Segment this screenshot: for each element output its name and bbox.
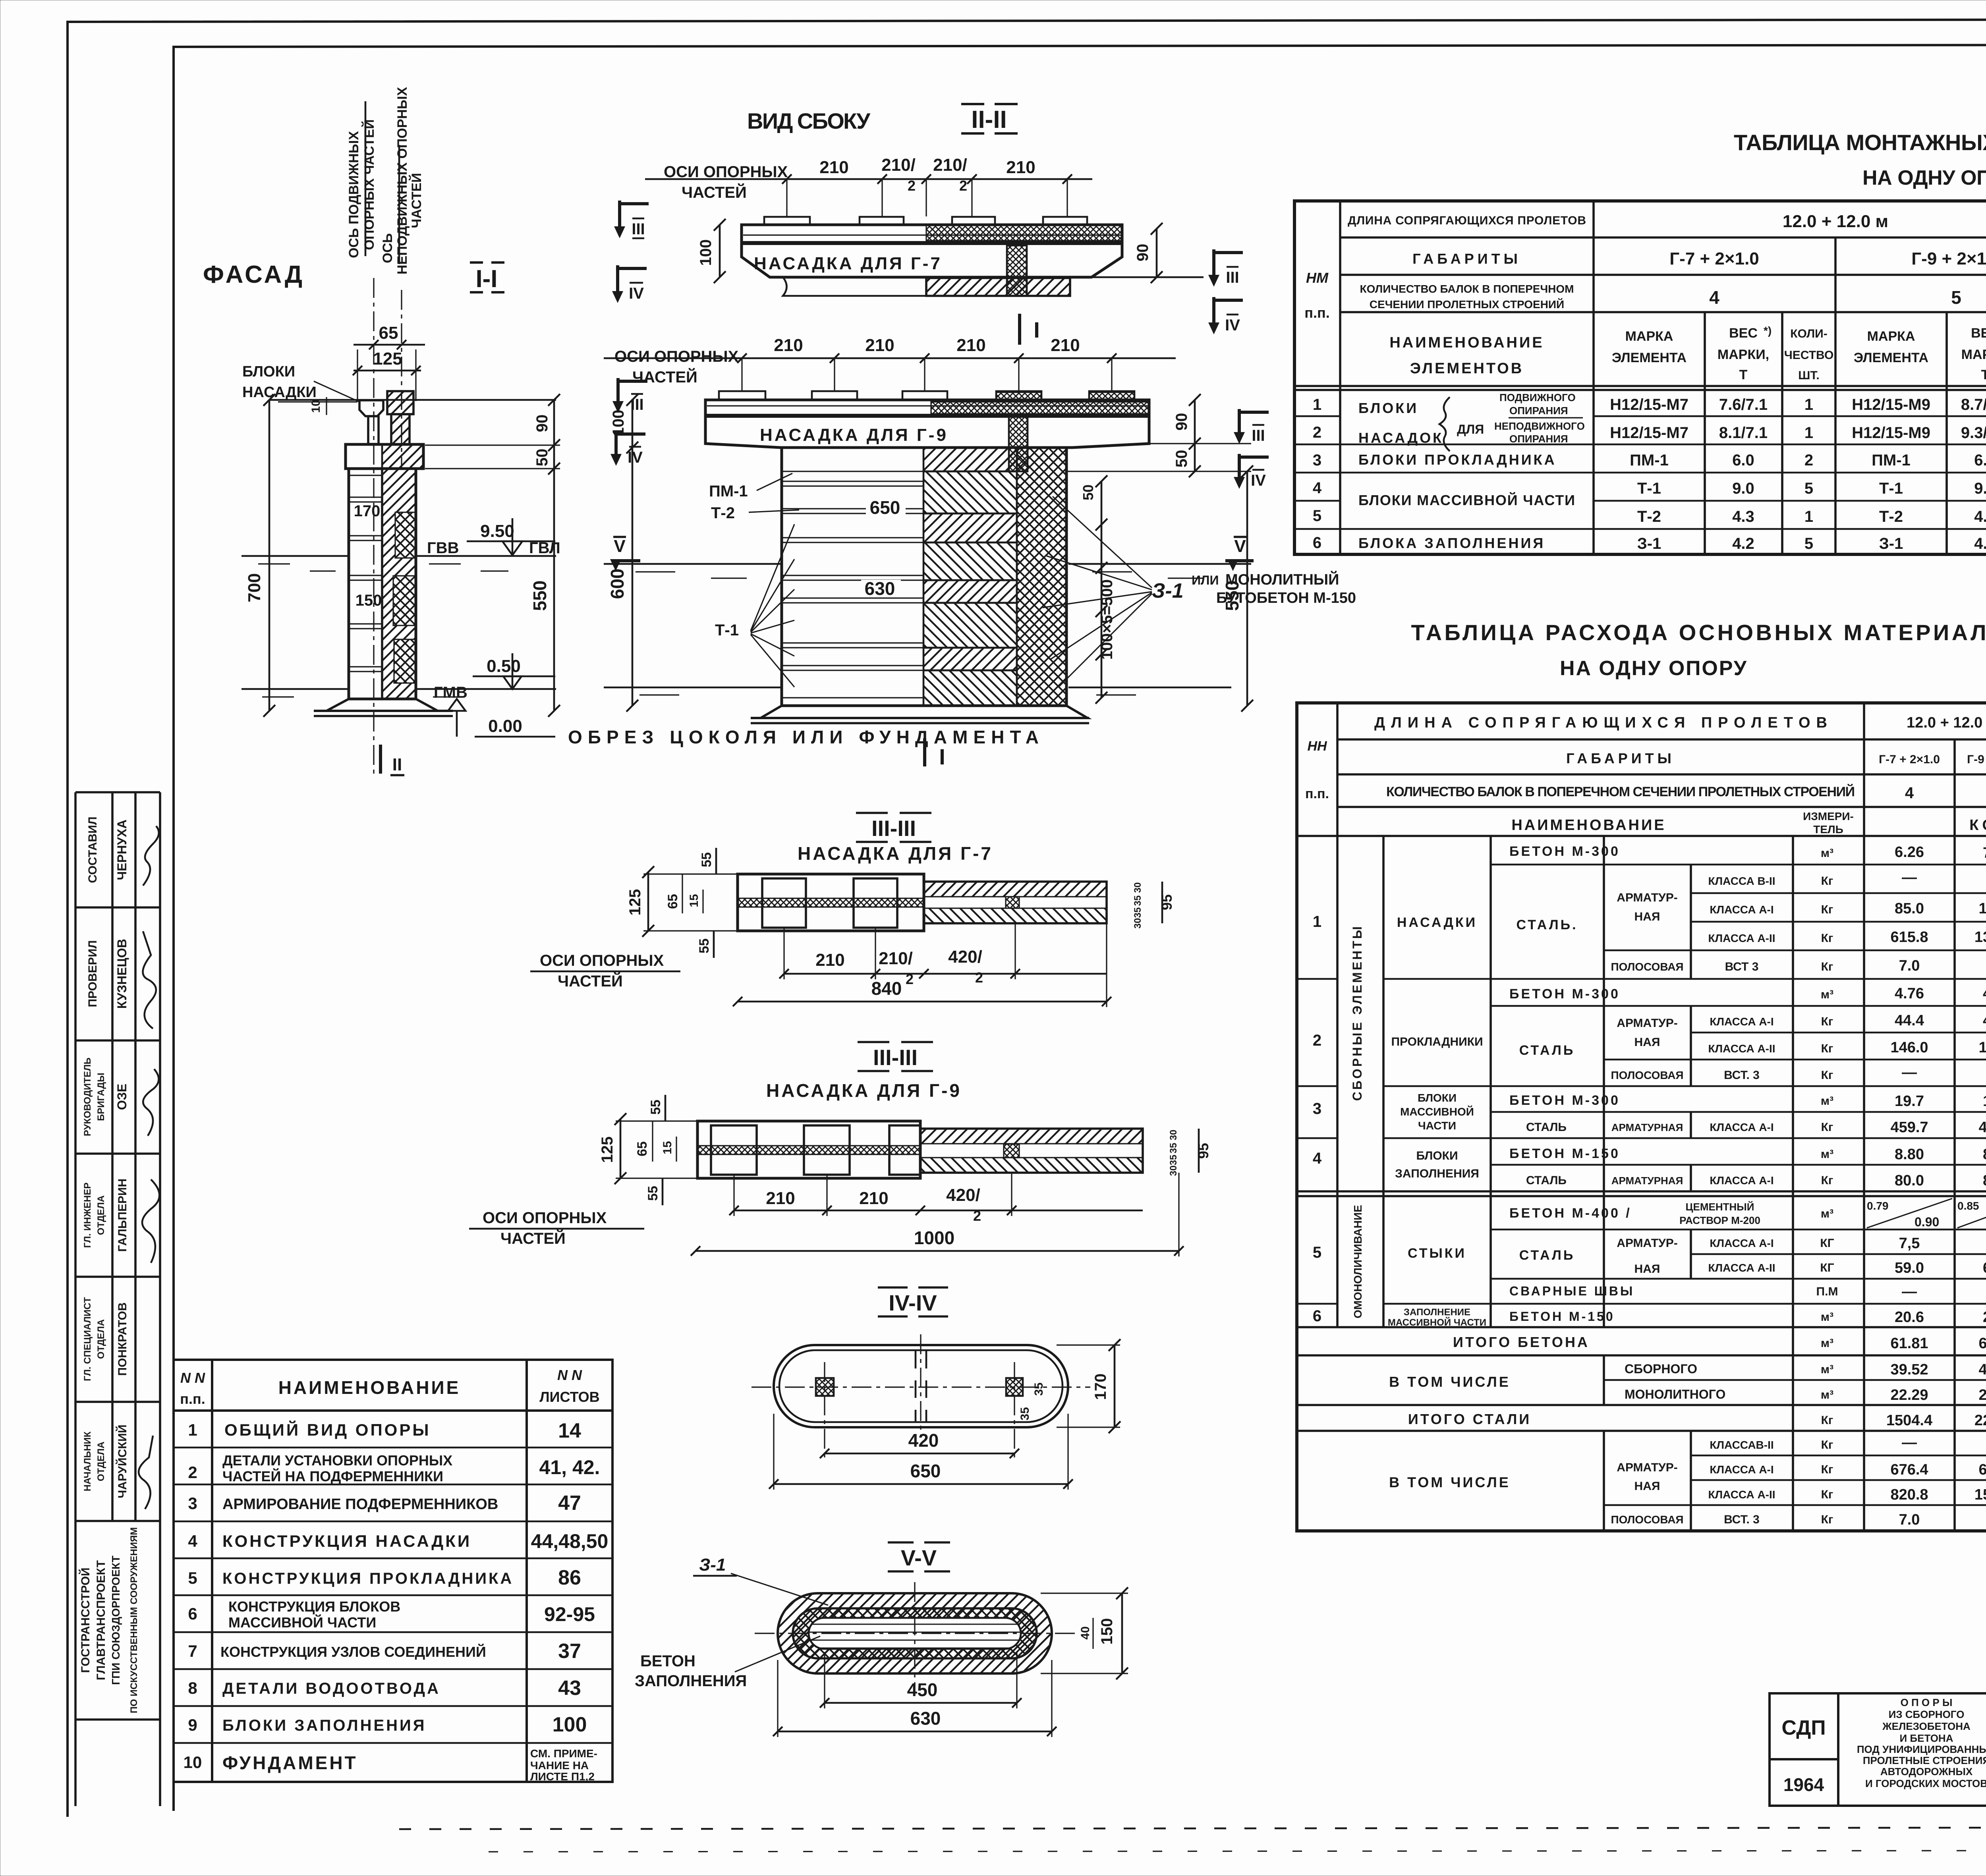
svg-text:450: 450	[907, 1679, 938, 1700]
насадка cap	[346, 444, 423, 469]
svg-text:Т: Т	[1739, 367, 1748, 382]
svg-text:КОНСТРУКЦИЯ УЗЛОВ СОЕДИНЕНИЙ: КОНСТРУКЦИЯ УЗЛОВ СОЕДИНЕНИЙ	[220, 1643, 486, 1660]
svg-text:*): *)	[1764, 324, 1772, 337]
dimension 170	[1114, 1345, 1116, 1427]
svg-text:ЗАПОЛНЕНИЕ: ЗАПОЛНЕНИЕ	[1404, 1307, 1470, 1318]
svg-text:—: —	[1902, 869, 1917, 886]
svg-text:0.50: 0.50	[487, 656, 521, 676]
svg-text:ГЛАВТРАНСПРОЕКТ: ГЛАВТРАНСПРОЕКТ	[95, 1560, 108, 1680]
svg-text:III: III	[630, 396, 643, 413]
svg-text:ЧАСТЕЙ: ЧАСТЕЙ	[409, 173, 424, 228]
svg-text:МАССИВНОЙ ЧАСТИ: МАССИВНОЙ ЧАСТИ	[228, 1614, 376, 1631]
svg-text:АРМАТУРНАЯ: АРМАТУРНАЯ	[1611, 1175, 1683, 1187]
svg-text:35: 35	[1032, 1382, 1045, 1395]
svg-text:65: 65	[665, 894, 680, 909]
svg-text:22.46: 22.46	[1978, 1387, 1986, 1403]
svg-text:20.6: 20.6	[1983, 1309, 1986, 1326]
right hatched half	[920, 1129, 1143, 1173]
svg-text:107.9: 107.9	[1978, 900, 1986, 917]
svg-text:0.00: 0.00	[488, 716, 522, 736]
svg-text:Кг: Кг	[1821, 1414, 1833, 1427]
svg-text:1: 1	[1804, 424, 1813, 442]
svg-text:III: III	[1226, 269, 1239, 286]
svg-text:ОБЩИЙ ВИД ОПОРЫ: ОБЩИЙ ВИД ОПОРЫ	[224, 1420, 431, 1439]
svg-text:НА ОДНУ ОПОРУ: НА ОДНУ ОПОРУ	[1862, 166, 1986, 189]
svg-text:5: 5	[1951, 287, 1961, 308]
svg-text:90: 90	[1173, 413, 1190, 431]
svg-text:ЧАСТЕЙ: ЧАСТЕЙ	[682, 183, 747, 201]
svg-text:ЭЛЕМЕНТА: ЭЛЕМЕНТА	[1854, 350, 1928, 365]
svg-text:БЕТОН М-150: БЕТОН М-150	[1509, 1146, 1620, 1161]
svg-text:м³: м³	[1821, 1388, 1833, 1401]
svg-text:90: 90	[533, 415, 551, 432]
svg-text:125: 125	[599, 1137, 616, 1163]
svg-text:210: 210	[819, 158, 848, 177]
section marks III IV right of main view	[1239, 409, 1269, 433]
svg-text:40.46: 40.46	[1978, 1361, 1986, 1378]
svg-text:210: 210	[1051, 336, 1080, 355]
svg-text:50: 50	[1173, 450, 1190, 468]
svg-text:В ТОМ ЧИСЛЕ: В ТОМ ЧИСЛЕ	[1389, 1374, 1511, 1390]
svg-text:20.6: 20.6	[1895, 1309, 1924, 1326]
svg-text:п.п.: п.п.	[1305, 786, 1329, 801]
svg-text:МАРКА: МАРКА	[1625, 329, 1673, 344]
svg-text:650: 650	[870, 497, 900, 518]
svg-text:КЛАССА А-I: КЛАССА А-I	[1710, 1237, 1773, 1249]
svg-text:АРМАТУР-: АРМАТУР-	[1617, 1461, 1677, 1474]
svg-text:ЖЕЛЕЗОБЕТОНА: ЖЕЛЕЗОБЕТОНА	[1882, 1720, 1971, 1732]
diagonal split cells М-400 row	[1867, 1199, 1986, 1228]
svg-text:55: 55	[648, 1100, 663, 1115]
svg-text:V-V: V-V	[901, 1545, 937, 1570]
svg-text:И ГОРОДСКИХ МОСТОВ: И ГОРОДСКИХ МОСТОВ	[1865, 1778, 1986, 1789]
svg-text:86: 86	[558, 1566, 581, 1589]
svg-text:IV: IV	[1251, 472, 1266, 489]
svg-text:ОСИ ОПОРНЫХ: ОСИ ОПОРНЫХ	[483, 1209, 607, 1227]
svg-text:Кг: Кг	[1821, 932, 1833, 945]
svg-text:39.52: 39.52	[1890, 1361, 1928, 1378]
water lines	[604, 563, 780, 565]
svg-text:7: 7	[188, 1642, 197, 1660]
svg-text:Н12/15-М7: Н12/15-М7	[1610, 424, 1688, 442]
dimension 90 50 right	[1194, 400, 1196, 471]
svg-text:ЧАСТЕЙ: ЧАСТЕЙ	[500, 1229, 566, 1247]
svg-text:ДЕТАЛИ ВОДООТВОДА: ДЕТАЛИ ВОДООТВОДА	[222, 1680, 440, 1697]
svg-text:N N: N N	[180, 1370, 205, 1386]
svg-text:12.0 + 12.0 м: 12.0 + 12.0 м	[1783, 212, 1888, 231]
svg-text:ЦЕМЕНТНЫЙ: ЦЕМЕНТНЫЙ	[1686, 1201, 1754, 1213]
svg-text:95: 95	[1159, 894, 1175, 910]
cap crosshatch right part	[931, 402, 1149, 414]
svg-text:630: 630	[910, 1708, 941, 1729]
svg-text:IV: IV	[1225, 317, 1240, 334]
svg-text:—: —	[1902, 1283, 1917, 1300]
svg-text:19.7: 19.7	[1895, 1093, 1924, 1110]
svg-text:210/: 210/	[881, 155, 916, 175]
svg-text:80.0: 80.0	[1983, 1172, 1986, 1189]
svg-text:СВАРНЫЕ ШВЫ: СВАРНЫЕ ШВЫ	[1509, 1284, 1634, 1298]
svg-text:15: 15	[661, 1141, 674, 1154]
svg-text:7.20: 7.20	[1983, 845, 1986, 861]
svg-text:НМ: НМ	[1306, 270, 1329, 286]
svg-text:4: 4	[1709, 287, 1719, 308]
svg-text:ЗАПОЛНЕНИЯ: ЗАПОЛНЕНИЯ	[635, 1672, 747, 1690]
svg-text:ПОЛОСОВАЯ: ПОЛОСОВАЯ	[1611, 961, 1683, 973]
column base flare	[761, 706, 1088, 718]
svg-text:З-1: З-1	[1637, 535, 1661, 552]
dimension 125 left	[620, 1119, 622, 1178]
svg-text:ДЛЯ: ДЛЯ	[1457, 422, 1484, 436]
svg-text:III-III: III-III	[873, 1045, 918, 1070]
svg-text:ПОДВИЖНОГО: ПОДВИЖНОГО	[1499, 392, 1576, 403]
svg-text:ГАБАРИТЫ: ГАБАРИТЫ	[1566, 750, 1675, 766]
svg-text:ПОЛОСОВАЯ: ПОЛОСОВАЯ	[1611, 1069, 1683, 1081]
dimension 650	[774, 1483, 1068, 1485]
svg-text:НН: НН	[1307, 739, 1327, 754]
svg-text:Кг: Кг	[1821, 903, 1833, 916]
svg-text:4.76: 4.76	[1895, 985, 1924, 1002]
svg-text:210: 210	[815, 950, 844, 970]
svg-text:И БЕТОНА: И БЕТОНА	[1900, 1732, 1953, 1744]
svg-text:35: 35	[1168, 1143, 1179, 1154]
svg-text:90: 90	[1134, 244, 1151, 262]
svg-text:КЛАССА А-I: КЛАССА А-I	[1710, 1174, 1773, 1187]
dimension 125 left	[647, 872, 649, 931]
svg-text:1: 1	[188, 1421, 197, 1439]
svg-text:III: III	[632, 220, 645, 238]
dimension 100 / 600 left	[632, 400, 634, 706]
top view: crosshatched right half band	[926, 225, 1122, 241]
svg-text:КЛАССА А-I: КЛАССА А-I	[1710, 1463, 1773, 1476]
svg-text:КЛАССА А-II: КЛАССА А-II	[1708, 1488, 1775, 1501]
svg-text:210: 210	[859, 1189, 888, 1208]
svg-text:820.8: 820.8	[1890, 1486, 1928, 1503]
svg-text:Кг: Кг	[1821, 1488, 1833, 1501]
svg-text:НАСАДКА ДЛЯ Г-9: НАСАДКА ДЛЯ Г-9	[760, 425, 948, 445]
svg-text:ИТОГО БЕТОНА: ИТОГО БЕТОНА	[1453, 1334, 1590, 1350]
svg-text:ГОСТРАНССТРОЙ: ГОСТРАНССТРОЙ	[79, 1567, 92, 1673]
svg-text:150: 150	[355, 592, 382, 609]
svg-text:НАЯ: НАЯ	[1634, 1036, 1660, 1049]
svg-text:3: 3	[188, 1494, 197, 1513]
svg-text:30: 30	[1132, 882, 1143, 893]
svg-text:АРМАТУР-: АРМАТУР-	[1617, 891, 1677, 904]
dimension 65	[354, 344, 425, 346]
svg-text:Т-1: Т-1	[1879, 480, 1903, 497]
dimension 550 right	[1246, 471, 1248, 706]
svg-text:1964: 1964	[1783, 1774, 1824, 1795]
svg-text:НАСАДКА ДЛЯ Г-7: НАСАДКА ДЛЯ Г-7	[754, 254, 942, 273]
svg-text:Г-7 + 2×1.0: Г-7 + 2×1.0	[1669, 249, 1759, 268]
pier axis (fixed bearings)	[401, 290, 402, 469]
svg-text:1: 1	[1804, 508, 1813, 525]
svg-text:м³: м³	[1821, 1363, 1833, 1376]
svg-text:ЭЛЕМЕНТОВ: ЭЛЕМЕНТОВ	[1410, 360, 1524, 377]
svg-text:35: 35	[1132, 896, 1143, 906]
svg-text:2: 2	[908, 178, 916, 194]
svg-text:4: 4	[1313, 479, 1322, 497]
svg-text:ЧАНИЕ НА: ЧАНИЕ НА	[530, 1759, 589, 1772]
svg-text:ОБРЕЗ ЦОКОЛЯ ИЛИ ФУНДАМЕНТА: ОБРЕЗ ЦОКОЛЯ ИЛИ ФУНДАМЕНТА	[568, 727, 1041, 747]
svg-text:210: 210	[766, 1189, 795, 1208]
svg-text:ПРОЛЕТНЫЕ СТРОЕНИЯ: ПРОЛЕТНЫЕ СТРОЕНИЯ	[1863, 1754, 1986, 1766]
svg-text:210/: 210/	[933, 155, 967, 175]
svg-text:ИЛИ: ИЛИ	[1192, 573, 1219, 587]
column body	[349, 469, 416, 699]
center lines	[755, 1633, 1075, 1634]
svg-text:ИЗ СБОРНОГО: ИЗ СБОРНОГО	[1889, 1708, 1965, 1720]
svg-text:Кг: Кг	[1821, 1015, 1833, 1028]
svg-text:СЕЧЕНИИ ПРОЛЕТНЫХ СТРОЕНИЙ: СЕЧЕНИИ ПРОЛЕТНЫХ СТРОЕНИЙ	[1370, 298, 1564, 311]
svg-text:4: 4	[1905, 784, 1914, 802]
svg-text:50: 50	[1080, 484, 1096, 500]
dimension chain right 90 50 550	[553, 400, 555, 711]
svg-text:8.80: 8.80	[1983, 1146, 1986, 1163]
svg-text:19.7: 19.7	[1983, 1093, 1986, 1110]
svg-text:6.0: 6.0	[1974, 452, 1986, 469]
svg-text:ПО ИСКУССТВЕННЫМ СООРУЖЕНИЯМ: ПО ИСКУССТВЕННЫМ СООРУЖЕНИЯМ	[129, 1527, 139, 1713]
svg-text:НАЯ: НАЯ	[1634, 910, 1660, 923]
svg-text:210: 210	[865, 336, 894, 355]
svg-text:КОЛИЧЕСТВО БАЛОК В ПОПЕРЕЧНОМ: КОЛИЧЕСТВО БАЛОК В ПОПЕРЕЧНОМ СЕЧЕНИИ ПР…	[1386, 784, 1855, 799]
svg-text:65: 65	[379, 323, 398, 343]
svg-text:КЛАССА А-II: КЛАССА А-II	[1708, 1042, 1775, 1055]
svg-text:ТЕЛЬ: ТЕЛЬ	[1813, 823, 1843, 836]
svg-text:НАСАДКИ: НАСАДКИ	[1397, 915, 1477, 930]
стойка strip crosshatched	[1009, 416, 1028, 471]
dimension 420	[825, 1453, 1014, 1455]
svg-text:65: 65	[635, 1141, 650, 1156]
svg-text:7.0: 7.0	[1899, 1511, 1920, 1528]
svg-text:80.0: 80.0	[1895, 1172, 1924, 1189]
svg-text:ВСТ 3: ВСТ 3	[1725, 960, 1759, 973]
svg-text:НАИМЕНОВАНИЕ: НАИМЕНОВАНИЕ	[278, 1377, 461, 1398]
svg-text:62.92: 62.92	[1978, 1335, 1986, 1352]
prokladnik band right (hatched)	[926, 278, 1070, 296]
svg-text:БЕТОН М-300: БЕТОН М-300	[1509, 1093, 1620, 1108]
svg-text:ОСИ ОПОРНЫХ: ОСИ ОПОРНЫХ	[664, 163, 788, 181]
column left white half	[782, 448, 1066, 706]
svg-text:550: 550	[529, 581, 550, 611]
svg-text:ЛИСТЕ П1,2: ЛИСТЕ П1,2	[530, 1770, 595, 1783]
svg-text:10: 10	[184, 1753, 202, 1772]
svg-text:ОПИРАНИЯ: ОПИРАНИЯ	[1509, 405, 1568, 417]
svg-text:2: 2	[973, 1208, 981, 1224]
column section hatch right half	[382, 469, 416, 699]
svg-text:ПМ-1: ПМ-1	[709, 483, 748, 500]
water line ГВВ	[241, 555, 349, 557]
anchor squares	[816, 1378, 834, 1396]
svg-text:ЧАСТЕЙ: ЧАСТЕЙ	[632, 368, 697, 386]
svg-text:125: 125	[626, 889, 644, 916]
svg-text:БЕТОН: БЕТОН	[640, 1652, 695, 1670]
svg-text:170: 170	[354, 502, 381, 520]
dimension 650	[866, 499, 906, 516]
svg-text:ЧАСТЕЙ НА ПОДФЕРМЕННИКИ: ЧАСТЕЙ НА ПОДФЕРМЕННИКИ	[222, 1468, 443, 1484]
svg-text:СДП: СДП	[1781, 1716, 1826, 1739]
svg-text:МАССИВНОЙ ЧАСТИ: МАССИВНОЙ ЧАСТИ	[1388, 1317, 1486, 1328]
svg-text:63.0: 63.0	[1983, 1260, 1986, 1276]
svg-text:ФУНДАМЕНТ: ФУНДАМЕНТ	[222, 1752, 358, 1773]
svg-text:п.п.: п.п.	[180, 1391, 205, 1407]
svg-text:5: 5	[1313, 1244, 1321, 1261]
svg-text:59.0: 59.0	[1895, 1260, 1924, 1276]
svg-text:9.0: 9.0	[1974, 480, 1986, 497]
svg-text:V: V	[1234, 537, 1246, 556]
svg-text:НАСАДКА ДЛЯ Г-7: НАСАДКА ДЛЯ Г-7	[798, 843, 993, 864]
svg-text:ОЗЕ: ОЗЕ	[115, 1084, 129, 1110]
svg-text:КОНСТРУКЦИЯ БЛОКОВ: КОНСТРУКЦИЯ БЛОКОВ	[228, 1598, 400, 1615]
svg-text:НА ОДНУ ОПОРУ: НА ОДНУ ОПОРУ	[1560, 657, 1747, 680]
svg-text:Кг: Кг	[1821, 1174, 1833, 1187]
svg-text:Г-9 + 2×1.0: Г-9 + 2×1.0	[1911, 249, 1986, 268]
svg-text:КОЛИЧЕСТВО БАЛОК В ПОПЕРЕЧНОМ: КОЛИЧЕСТВО БАЛОК В ПОПЕРЕЧНОМ	[1360, 283, 1574, 295]
bearing pads	[764, 217, 1087, 225]
svg-text:95: 95	[1195, 1143, 1211, 1159]
svg-text:8: 8	[188, 1679, 197, 1697]
center lines	[752, 1386, 1090, 1388]
svg-text:4.3: 4.3	[1974, 508, 1986, 525]
svg-text:БЕТОН М-300: БЕТОН М-300	[1509, 844, 1620, 859]
svg-text:КУЗНЕЦОВ: КУЗНЕЦОВ	[115, 939, 129, 1009]
svg-text:II: II	[392, 755, 402, 774]
svg-text:КЛАССА А-I: КЛАССА А-I	[1710, 1121, 1773, 1133]
svg-text:6: 6	[1313, 1307, 1321, 1325]
svg-text:КГ: КГ	[1820, 1261, 1834, 1274]
svg-text:Кг: Кг	[1821, 960, 1833, 973]
svg-text:НАСАДКИ: НАСАДКИ	[242, 384, 317, 401]
svg-text:КОЛИ-: КОЛИ-	[1790, 327, 1828, 340]
svg-text:КЛАССА А-II: КЛАССА А-II	[1708, 1262, 1775, 1274]
svg-text:55: 55	[645, 1186, 661, 1201]
svg-text:ВЕС: ВЕС	[1971, 326, 1986, 341]
svg-text:85.0: 85.0	[1895, 900, 1924, 917]
svg-text:СТАЛЬ: СТАЛЬ	[1519, 1248, 1575, 1263]
svg-text:Н12/15-М9: Н12/15-М9	[1852, 424, 1930, 442]
svg-text:БЕТОН М-400 /: БЕТОН М-400 /	[1509, 1206, 1632, 1221]
svg-text:420: 420	[908, 1430, 939, 1451]
svg-text:ОТДЕЛА: ОТДЕЛА	[96, 1442, 106, 1481]
svg-text:—: —	[1902, 1064, 1917, 1081]
svg-text:СМ. ПРИМЕ-: СМ. ПРИМЕ-	[530, 1747, 597, 1760]
section marks III IV left of top view	[620, 201, 649, 227]
svg-text:ОСИ ОПОРНЫХ: ОСИ ОПОРНЫХ	[614, 348, 739, 365]
svg-text:2: 2	[188, 1463, 197, 1482]
svg-text:НАИМЕНОВАНИЕ: НАИМЕНОВАНИЕ	[1389, 334, 1544, 351]
svg-text:НАЯ: НАЯ	[1634, 1480, 1660, 1493]
svg-text:СТАЛЬ: СТАЛЬ	[1526, 1174, 1567, 1187]
svg-text:ОПИРАНИЯ: ОПИРАНИЯ	[1509, 433, 1568, 445]
svg-text:ФАСАД: ФАСАД	[203, 261, 302, 288]
column section hatched blocks	[923, 448, 1017, 706]
svg-text:ВЕС: ВЕС	[1729, 326, 1758, 341]
svg-text:БЕТОН М-300: БЕТОН М-300	[1509, 986, 1620, 1002]
svg-text:92-95: 92-95	[544, 1603, 595, 1625]
svg-text:ГПИ СОЮЗДОРПРОЕКТ: ГПИ СОЮЗДОРПРОЕКТ	[110, 1556, 122, 1685]
dimension 840	[738, 1001, 1107, 1003]
svg-text:м³: м³	[1821, 988, 1833, 1001]
svg-text:НЕПОДВИЖНЫХ ОПОРНЫХ: НЕПОДВИЖНЫХ ОПОРНЫХ	[395, 87, 410, 274]
svg-text:420/: 420/	[946, 1185, 980, 1205]
svg-text:3: 3	[1313, 1100, 1321, 1117]
dimension 630	[778, 1731, 1052, 1733]
svg-text:м³: м³	[1821, 1094, 1833, 1108]
svg-text:5: 5	[188, 1569, 197, 1587]
svg-text:МОНОЛИТНЫЙ: МОНОЛИТНЫЙ	[1225, 570, 1339, 588]
svg-text:2: 2	[975, 969, 983, 986]
svg-text:МАССИВНОЙ: МАССИВНОЙ	[1400, 1105, 1474, 1118]
svg-text:420/: 420/	[948, 947, 982, 967]
svg-text:5: 5	[1804, 480, 1813, 497]
svg-text:БЛОКИ ПРОКЛАДНИКА: БЛОКИ ПРОКЛАДНИКА	[1358, 452, 1557, 468]
svg-text:2: 2	[1313, 424, 1321, 441]
svg-text:КГ: КГ	[1820, 1237, 1834, 1250]
svg-text:—: —	[1902, 1434, 1917, 1451]
svg-text:459.7: 459.7	[1890, 1119, 1928, 1136]
body plan left half	[697, 1121, 920, 1178]
svg-text:ПОНКРАТОВ: ПОНКРАТОВ	[116, 1303, 129, 1376]
svg-text:ПОД УНИФИЦИРОВАННЫЕ: ПОД УНИФИЦИРОВАННЫЕ	[1857, 1743, 1986, 1755]
svg-text:Т: Т	[1981, 367, 1986, 382]
svg-text:БЛОКИ МАССИВНОЙ ЧАСТИ: БЛОКИ МАССИВНОЙ ЧАСТИ	[1358, 492, 1575, 508]
svg-text:КОНСТРУКЦИЯ НАСАДКИ: КОНСТРУКЦИЯ НАСАДКИ	[222, 1532, 471, 1550]
svg-text:БЛОКИ: БЛОКИ	[1416, 1149, 1458, 1162]
data rows values	[1610, 396, 1986, 552]
dimension 150 / 40	[1121, 1593, 1123, 1673]
svg-text:АВТОДОРОЖНЫХ: АВТОДОРОЖНЫХ	[1880, 1766, 1973, 1778]
top view: насадка for Г-7	[742, 225, 1122, 277]
svg-text:БУТОБЕТОН М-150: БУТОБЕТОН М-150	[1216, 590, 1356, 606]
svg-text:100: 100	[697, 239, 715, 266]
dimension 100 left	[719, 225, 721, 277]
row numbers	[1313, 396, 1322, 552]
data values	[1886, 844, 1986, 1528]
svg-text:ЗАПОЛНЕНИЯ: ЗАПОЛНЕНИЯ	[1395, 1167, 1479, 1180]
svg-text:700: 700	[245, 573, 264, 602]
svg-text:МАРКИ: МАРКИ	[1961, 347, 1986, 362]
svg-text:АРМАТУРНАЯ: АРМАТУРНАЯ	[1611, 1121, 1683, 1133]
svg-text:НАЧАЛЬНИК: НАЧАЛЬНИК	[82, 1431, 93, 1491]
svg-text:Т-1: Т-1	[715, 621, 739, 639]
dimension row 210 210/2 420/2	[784, 973, 1107, 975]
svg-text:ОТДЕЛА: ОТДЕЛА	[96, 1319, 106, 1359]
svg-text:БЕТОН М-150: БЕТОН М-150	[1509, 1309, 1615, 1324]
svg-text:СТАЛЬ: СТАЛЬ	[1526, 1121, 1567, 1134]
signature strip grid	[75, 792, 160, 1806]
svg-text:НАЯ: НАЯ	[1634, 1262, 1660, 1276]
dimension row 210 210 420/2	[734, 1210, 1143, 1212]
svg-text:41, 42.: 41, 42.	[539, 1456, 600, 1478]
svg-text:61.81: 61.81	[1890, 1335, 1928, 1352]
svg-text:1: 1	[1804, 396, 1813, 413]
svg-text:40: 40	[1079, 1626, 1092, 1639]
svg-text:47: 47	[558, 1492, 581, 1515]
svg-text:ЧЕРНУХА: ЧЕРНУХА	[115, 820, 129, 880]
svg-text:АРМАТУР-: АРМАТУР-	[1617, 1237, 1677, 1250]
block joints left half	[349, 475, 382, 672]
svg-text:ГЛ. СПЕЦИАЛИСТ: ГЛ. СПЕЦИАЛИСТ	[82, 1297, 93, 1381]
svg-text:РУКОВОДИТЕЛЬ: РУКОВОДИТЕЛЬ	[82, 1058, 93, 1136]
svg-text:О П О Р Ы: О П О Р Ы	[1901, 1697, 1953, 1708]
svg-text:ВИД СБОКУ: ВИД СБОКУ	[747, 108, 871, 133]
svg-text:676.4: 676.4	[1890, 1461, 1928, 1478]
dimension 700 left	[269, 400, 270, 711]
svg-text:ГМВ: ГМВ	[434, 684, 468, 701]
svg-text:146.0: 146.0	[1978, 1039, 1986, 1056]
svg-text:ОСИ ОПОРНЫХ: ОСИ ОПОРНЫХ	[540, 952, 664, 969]
svg-text:БЛОКИ: БЛОКИ	[242, 363, 295, 380]
title block	[1770, 1693, 1986, 1806]
